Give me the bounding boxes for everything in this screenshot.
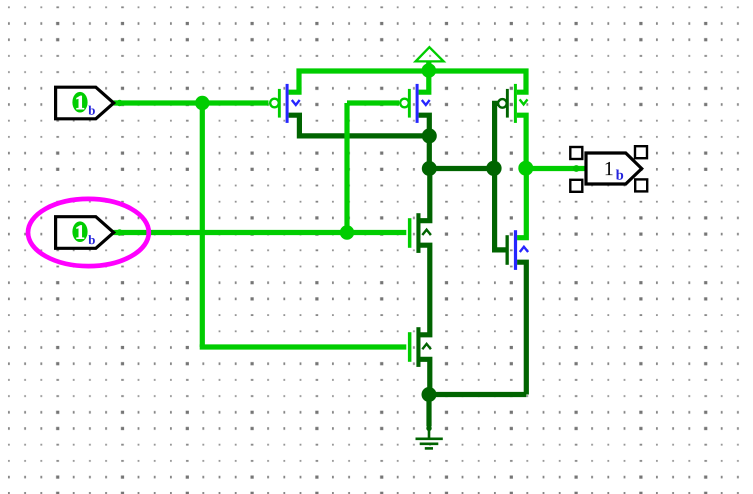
wire: Q2 source drop from rail	[419, 71, 429, 92]
wire: input B row from pin B to Q4 NMOS gate	[114, 230, 407, 235]
highlight halo around input pin B	[28, 199, 149, 266]
wire: power stem	[426, 61, 431, 71]
selection handle bottom-right	[635, 179, 647, 191]
wire: Q3 gate line down to Q6 gate	[495, 103, 506, 250]
wire: Q3 drain down to output node	[517, 115, 526, 168]
wire: Q4 NMOS drain up to node E	[421, 169, 430, 221]
node B junction	[340, 225, 354, 239]
wire: Q2 drain down to node D	[419, 115, 430, 136]
selection handle bottom-left	[570, 180, 582, 192]
wire: Q6 source column down to ground row	[517, 262, 526, 394]
transistor Q3 (PMOS)	[498, 84, 527, 123]
wire: output node to output pin	[526, 166, 586, 171]
transistor Q1 (PMOS)	[270, 84, 300, 123]
wire: input A row from pin A to Q1 gate bubble	[114, 100, 269, 105]
input pin A	[56, 87, 114, 119]
wire: vertical from node A down to bottom gate row	[200, 100, 205, 347]
wire: ground node down to ground symbol	[426, 395, 431, 427]
transistor Q5 (NMOS)	[408, 327, 431, 367]
wire: Q1 drain to node D (dark, logic 0)	[289, 115, 430, 136]
wire: ground node right to Q6 source column	[429, 392, 526, 397]
output pin Y	[586, 153, 642, 184]
transistor Q2 (PMOS)	[400, 84, 430, 123]
port dot: pin B output	[116, 229, 122, 235]
node F junction	[486, 161, 501, 176]
transistor Q4 (NMOS)	[408, 213, 431, 253]
wire: node D down to node E	[427, 136, 432, 169]
selection handle top-left	[570, 147, 582, 159]
port dot: pin A output	[116, 100, 122, 106]
ground	[416, 426, 443, 449]
port dot: output pin input	[573, 165, 580, 172]
transistor Q6 (NMOS)	[506, 230, 529, 270]
wire: Q6 NMOS drain up to output node	[517, 171, 526, 238]
selection handle top-right	[635, 146, 647, 158]
node E junction	[422, 161, 437, 176]
wire: Q4 source down to Q5 drain	[421, 245, 430, 335]
wire: bottom row to Q5 NMOS gate	[200, 344, 407, 349]
wire: horizontal to Q2 gate bubble	[347, 100, 399, 105]
wire: vertical from node B up to Q2 gate	[344, 103, 349, 233]
input pin B	[56, 217, 114, 249]
wire: VDD power rail with Q1 and Q3 source drops	[289, 71, 526, 92]
node VDD rail junction	[422, 63, 437, 78]
power supply V+	[416, 47, 444, 61]
node D junction (PMOS drains)	[422, 128, 437, 143]
wire: node E right to node F	[429, 166, 494, 171]
node GND junction	[422, 387, 437, 402]
node A junction	[195, 96, 209, 110]
wire: Q5 source down to ground node	[421, 359, 430, 394]
node OUT junction	[518, 161, 533, 176]
